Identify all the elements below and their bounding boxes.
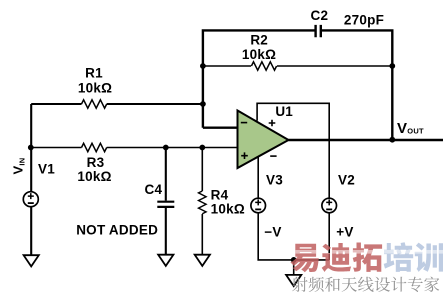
svg-text:V2: V2 [338,173,355,188]
svg-text:−V: −V [264,225,281,240]
svg-text:R2: R2 [250,33,268,48]
svg-text:10kΩ: 10kΩ [77,169,111,184]
svg-text:V1: V1 [38,162,55,177]
svg-text:C2: C2 [311,8,329,23]
svg-text:R4: R4 [211,187,229,202]
svg-text:V3: V3 [266,173,283,188]
svg-text:NOT ADDED: NOT ADDED [76,223,158,238]
svg-text:R3: R3 [87,155,105,170]
svg-text:+V: +V [336,225,353,240]
svg-text:U1: U1 [275,104,293,119]
svg-text:C4: C4 [145,182,163,197]
svg-text:10kΩ: 10kΩ [78,81,112,96]
svg-text:270pF: 270pF [344,12,384,27]
svg-text:10kΩ: 10kΩ [242,47,276,62]
svg-text:10kΩ: 10kΩ [211,201,245,216]
svg-text:R1: R1 [85,66,103,81]
